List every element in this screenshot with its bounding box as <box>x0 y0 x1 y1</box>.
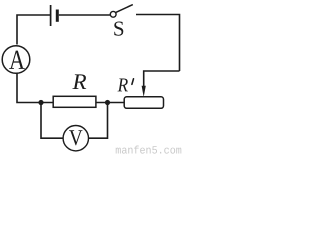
svg-text:manfen5.com: manfen5.com <box>115 146 182 157</box>
switch S: open blade <box>116 5 133 13</box>
voltmeter V: circle <box>63 126 88 151</box>
battery cell: short thick plate <box>56 10 59 22</box>
voltmeter V: letter <box>69 130 82 145</box>
rheostat R' box <box>124 97 163 109</box>
wire: voltmeter branch right <box>89 103 108 139</box>
switch S: pivot circle <box>110 11 116 17</box>
wire: switch to top-right corner and down right side <box>136 15 180 72</box>
battery cell: long thin plate <box>50 5 52 26</box>
junction dot left of R <box>38 100 43 105</box>
label S <box>114 22 123 36</box>
ammeter A: letter <box>9 51 25 69</box>
wire: battery to switch <box>59 14 111 16</box>
wiper arrow of rheostat <box>142 86 146 97</box>
label R' <box>118 79 128 92</box>
wire: jog left to wiper <box>144 71 180 87</box>
ammeter A: circle <box>2 46 30 74</box>
wire: voltmeter branch left <box>41 103 63 139</box>
label R <box>72 74 86 89</box>
resistor R box <box>53 96 96 107</box>
wire: top-left horizontal from corner to battery <box>17 15 50 45</box>
wire: R to rheostat <box>96 102 124 104</box>
wire: ammeter down to bottom rail <box>17 73 53 102</box>
junction dot right of R <box>105 100 110 105</box>
